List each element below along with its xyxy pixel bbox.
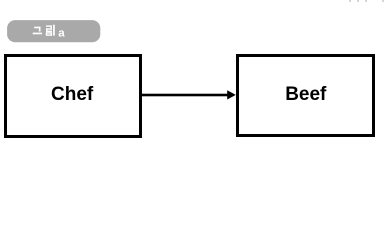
glyph 림 <box>46 25 55 36</box>
arrow head <box>227 90 236 99</box>
glyph 그 <box>33 27 42 35</box>
diagram svg layer: badge + arrow <box>0 0 386 154</box>
remnant mark 2 <box>357 0 359 2</box>
remnant mark 3 <box>365 0 367 2</box>
box Beef <box>236 54 375 137</box>
label badge "그림 a" background <box>7 20 100 42</box>
remnant mark 1 (cropped text above, top right) <box>349 0 351 2</box>
svg-text:a: a <box>58 27 65 39</box>
arrow shaft Chef to Beef <box>142 94 229 97</box>
remnant mark 4 <box>382 0 384 2</box>
box Chef <box>4 54 142 138</box>
